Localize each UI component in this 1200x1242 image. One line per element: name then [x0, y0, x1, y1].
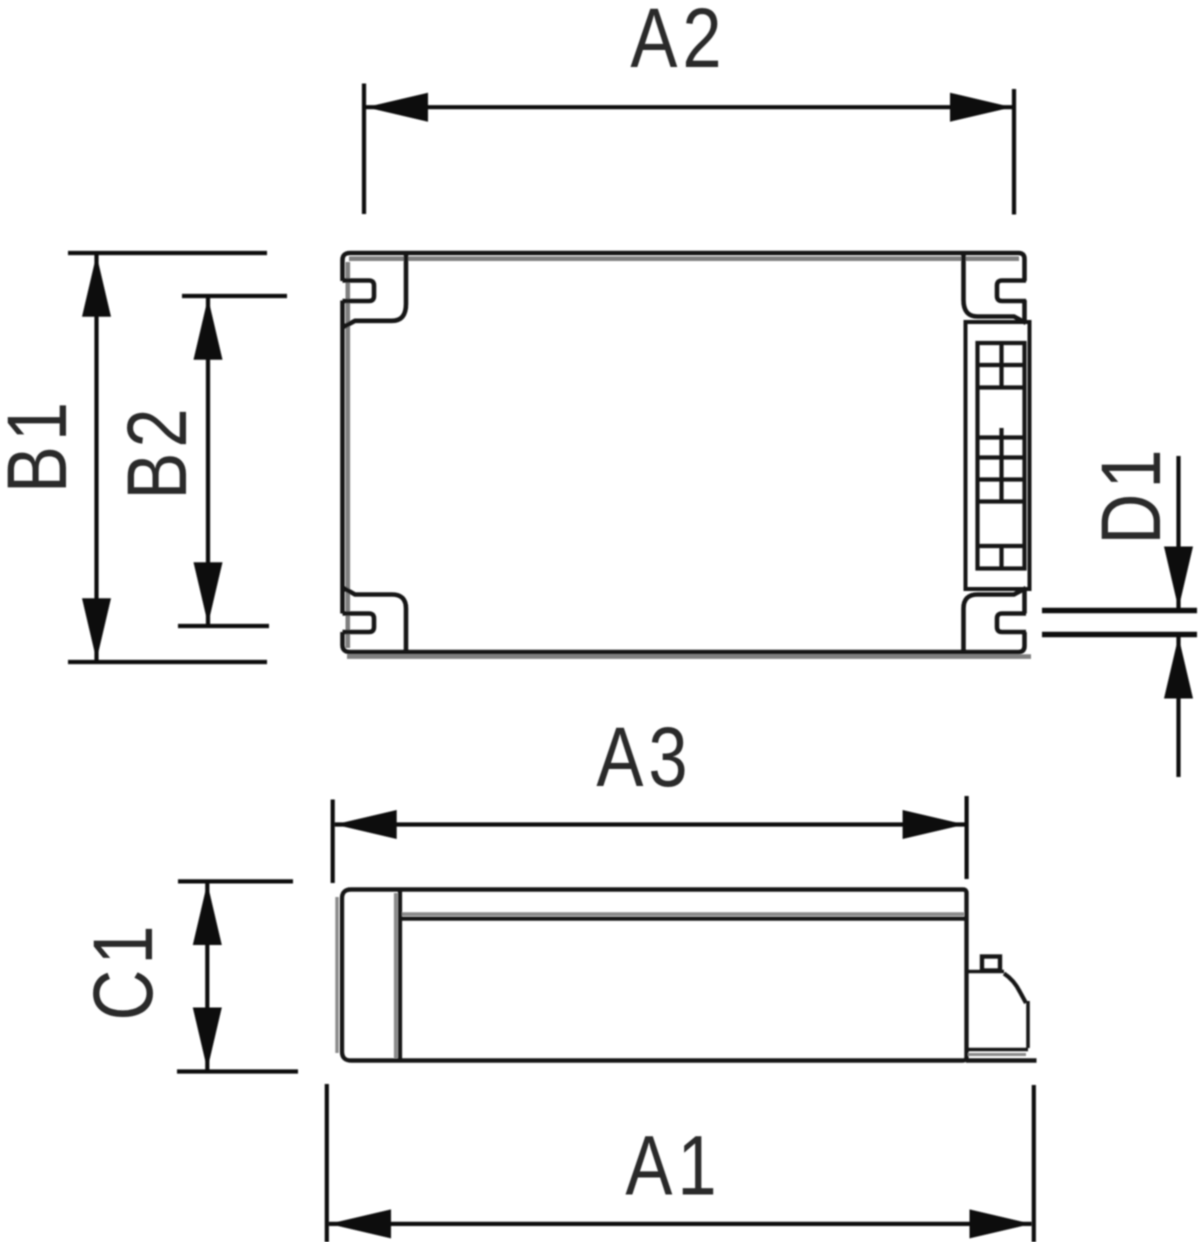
side connector bottom line [967, 1048, 1029, 1052]
svg-text:B2: B2 [111, 408, 204, 499]
arrowhead A1 left [329, 1209, 391, 1238]
arrowhead A3 left [335, 810, 397, 839]
mounting slot top-right : outer profile [964, 254, 1027, 323]
mounting slot bottom-left : hook [343, 614, 375, 633]
arrowhead B2 down [194, 562, 223, 624]
side view end-cap vertical line [398, 890, 402, 1060]
side connector latch tab [982, 957, 1000, 971]
dimension D1 extension line lower [1042, 632, 1197, 637]
side connector step line [967, 970, 1005, 973]
dimension B1 line [94, 255, 98, 660]
top view shadow line right of left edge [345, 262, 350, 648]
dimension A3 extension line right [964, 796, 968, 879]
dimension C1 line [205, 883, 209, 1070]
dimension C1 extension line top [178, 879, 293, 883]
arrowhead A1 right [970, 1209, 1032, 1238]
terminal row line 4 [978, 455, 1025, 459]
side connector bottom shadow line [968, 1053, 1026, 1056]
side view enclosure outline [342, 890, 967, 1061]
dimension B2 line [206, 298, 210, 624]
dimension B1 extension line top [68, 251, 267, 255]
side view lid edge line [400, 917, 966, 921]
mounting slot top-right : hook [997, 281, 1026, 302]
arrowhead C1 down [193, 1008, 222, 1070]
arrowhead D1 up [1164, 637, 1193, 699]
top view shadow line below bottom edge [347, 654, 1031, 659]
dimension A1 line [329, 1222, 1032, 1226]
arrowhead C1 up [193, 883, 222, 945]
mounting slot bottom-right : hook [997, 614, 1026, 633]
terminal row line 6 [978, 499, 1025, 503]
mounting slot bottom-right : outer profile [964, 588, 1027, 651]
side view shadow sliver left [335, 897, 338, 1053]
side view bottom edge extension under connector [966, 1058, 1037, 1062]
side connector right edge [1026, 1001, 1030, 1048]
dimension B1 extension line bottom [68, 660, 267, 664]
arrowhead B2 up [194, 298, 223, 360]
mounting slot top-left : outer profile [343, 254, 407, 328]
terminal row line 5 [978, 477, 1025, 481]
dimension A3 line [335, 822, 965, 826]
dimension B2 extension line top [182, 294, 287, 298]
svg-text:C1: C1 [77, 925, 170, 1020]
mounting slot top-left : hook [343, 281, 375, 302]
terminal divider upper [999, 343, 1003, 388]
mounting slot bottom-left : outer profile [343, 588, 407, 652]
terminal row line 3 [978, 435, 1025, 439]
dimension D1 line lower [1176, 637, 1180, 778]
top view shadow line below top edge [349, 256, 1019, 261]
top view enclosure outline [343, 253, 1025, 652]
svg-text:A1: A1 [625, 1120, 716, 1213]
arrowhead A2 right [950, 93, 1012, 122]
dimension C1 extension line bottom [177, 1069, 298, 1073]
dimension A2 extension line left [362, 84, 366, 215]
dimension A2 line [366, 105, 1012, 109]
terminal divider middle [999, 428, 1003, 502]
terminal row line 1 [978, 363, 1025, 367]
arrowhead D1 down [1164, 547, 1193, 609]
terminal row line 2 [978, 385, 1025, 389]
svg-text:D1: D1 [1085, 449, 1178, 544]
svg-text:A3: A3 [596, 711, 687, 804]
terminal divider lower [999, 546, 1003, 569]
svg-text:B1: B1 [0, 402, 84, 493]
arrowhead A2 left [366, 93, 428, 122]
dimension A2 extension line right [1012, 89, 1016, 215]
dimension A1 extension line right [1032, 1085, 1036, 1242]
dimension B2 extension line bottom [178, 624, 269, 628]
dimension D1 line upper [1176, 456, 1180, 609]
side view lid edge shadow line [402, 912, 964, 916]
side view end-cap shadow line [394, 893, 398, 1058]
arrowhead B1 up [82, 255, 111, 317]
terminal block outer rectangle [966, 322, 1030, 589]
dimension A1 extension line left [325, 1084, 329, 1242]
dimension D1 extension line upper [1042, 608, 1197, 613]
terminal block inner body [978, 343, 1025, 569]
arrowhead A3 right [903, 810, 965, 839]
terminal row line 7 [978, 544, 1025, 548]
side connector wedge diagonal [1004, 974, 1026, 1004]
arrowhead B1 down [82, 598, 111, 660]
top view shadow lines (gray doubles) [347, 259, 1031, 657]
dimension A3 extension line left [331, 800, 335, 884]
svg-text:A2: A2 [630, 0, 721, 85]
